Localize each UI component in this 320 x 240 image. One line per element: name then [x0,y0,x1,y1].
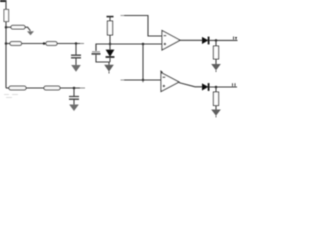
ground G1 (small arrow) [27,31,34,35]
wire vertical 143 down [142,44,144,83]
node A junction (6,27) [5,26,8,29]
capacitor C2 [69,97,79,100]
node J junction (216,87) [215,86,218,89]
wire R9 top lead [215,87,217,92]
wire left rail vertical [5,0,7,88]
wire top-left feed [0,0,6,2]
wire reference to U1 minus input [110,43,162,45]
capacitor C1 [71,55,81,58]
ground G2 (arrow) [71,65,81,72]
wire zener to ground stub [108,62,110,65]
wire U1 output [180,39,202,41]
node B junction (6,43.5) [5,42,8,45]
wire row2 mid [22,43,47,45]
zener D1 (black, cathode down) [106,44,115,62]
resistor R3 [10,42,22,46]
power terminal T1 [107,16,114,18]
wire cap C2 top lead [73,88,75,96]
node G junction (143,44) [142,43,145,46]
wire R7 to node F [109,35,111,44]
wire T1 to R7 [109,17,111,21]
node D junction (76,43.5) [75,42,78,45]
resistor R8 [213,46,218,59]
label faint value text lower-left [4,95,18,98]
wire cap C1 top lead [75,44,77,56]
wire R8 top lead [215,40,217,46]
wire cluster top [96,44,110,51]
ground G6 (arrow) [211,110,221,118]
wire R8 bottom lead [215,59,217,64]
wire lower input to U2 [121,79,162,81]
wire row2 left [6,43,10,45]
wire R2 to ground [25,27,30,31]
wire cap C2 bottom lead [73,99,75,104]
wire lower rail corner [6,87,9,89]
wire top supply to U1 plus input [121,16,163,37]
label net 1b bottom-right [233,83,236,86]
wire cap C1 bottom lead [75,58,77,65]
node F junction (110,44) [109,43,112,46]
wire lower rail right [60,87,85,89]
node I junction (216,40.4) [215,39,218,42]
wire row1 [6,26,11,28]
resistor R1 [4,10,9,22]
resistor R4 [46,42,57,46]
resistor R2 [11,25,25,29]
label net 1a top-right [234,37,238,40]
op-amp U2 [161,71,180,92]
ground G4 (arrow) [104,65,114,74]
op-amp U1 [162,31,180,51]
wire cluster bottom left [96,44,110,62]
node C junction (44,43.5) [43,42,46,45]
wire D3 to right edge [210,86,238,88]
resistor R7 [107,21,112,35]
diode D2 [202,37,209,45]
ground G5 (arrow) [211,64,221,72]
wire U2 output [179,83,202,87]
wire lower rail mid [26,87,44,89]
diode D3 [202,83,209,91]
wire D2 to right edge [210,39,238,41]
capacitor C3 (left branch) [92,52,101,54]
wire R9 bottom lead [215,106,217,110]
resistor R6 [44,86,60,90]
node E junction (74,88) [73,87,76,90]
wire row2 right [57,43,84,45]
node H junction (143,80) [142,79,145,82]
ground G3 (arrow) [69,105,79,112]
resistor R5 [9,86,26,90]
resistor R9 [213,92,218,106]
